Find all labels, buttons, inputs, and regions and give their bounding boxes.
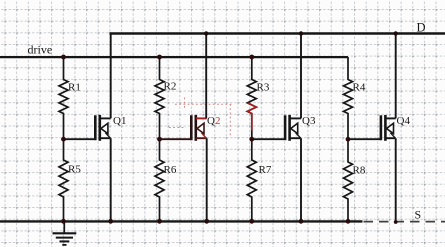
svg-text:Q1: Q1: [113, 115, 126, 127]
wire: Q2 source to rail: [206, 138, 208, 221]
svg-text:Q2: Q2: [207, 115, 220, 127]
transistor Q4: [348, 115, 396, 141]
resistor R5: [59, 139, 68, 221]
transistor Q2 (highlighted red): [160, 115, 207, 141]
wire: drive rail: [0, 56, 348, 58]
junction gate node 4: [346, 137, 351, 142]
svg-text:R8: R8: [353, 165, 366, 177]
junction S-rail/Q4 source: [394, 220, 398, 224]
svg-text:R1: R1: [68, 82, 81, 94]
wire: Q3 source to rail: [300, 138, 302, 221]
wire: Q1 drain to rail: [110, 34, 112, 119]
junction D-rail/Q3 drain: [299, 31, 303, 35]
junction S-rail/R6: [157, 219, 162, 224]
ground: [53, 221, 77, 245]
junction S-rail/R5: [61, 219, 66, 224]
svg-text:R3: R3: [257, 82, 270, 94]
junction drive/R3: [249, 55, 254, 60]
transistor Q3: [252, 115, 301, 141]
svg-text:R5: R5: [68, 164, 81, 176]
transistor Q1: [64, 115, 111, 141]
wire: R3 to gate node (highlighted red): [247, 103, 256, 131]
wire: Q4 source to rail: [395, 138, 397, 222]
junction S-rail/Q2 source: [204, 219, 209, 224]
junction gate node 3: [249, 137, 254, 142]
wire: Q3 drain to rail: [300, 34, 302, 119]
junction D-rail/Q2 drain: [204, 31, 208, 35]
svg-text:Q3: Q3: [302, 115, 316, 127]
svg-text:S: S: [415, 207, 422, 221]
junction gate node 2: [157, 137, 162, 142]
svg-text:drive: drive: [28, 43, 53, 57]
svg-text:R2: R2: [164, 81, 177, 93]
svg-text:Q4: Q4: [397, 115, 411, 127]
junction S-rail/Q3 source: [299, 219, 304, 224]
junction S-rail/R8: [346, 219, 351, 224]
wire: bottom source rail (net S): [0, 220, 363, 222]
junction D-rail/Q4 drain: [394, 31, 398, 35]
junction drive/R2: [157, 55, 162, 60]
svg-text:D: D: [417, 21, 426, 35]
junction S-rail/Q1 source: [108, 219, 113, 224]
junction drive/R1: [61, 55, 66, 60]
wire: Q2 drain to rail: [205, 34, 207, 119]
svg-text:R7: R7: [259, 164, 272, 176]
resistor R2: [155, 57, 164, 139]
resistor R1: [59, 57, 68, 139]
resistor R6: [155, 139, 164, 221]
junction S-rail/R7: [249, 219, 254, 224]
resistor R7: [247, 139, 256, 221]
svg-text:R6: R6: [164, 164, 177, 176]
selection marks around Q2: [169, 98, 233, 137]
wire: top drain rail (net D): [111, 34, 445, 35]
svg-text:R4: R4: [353, 82, 366, 94]
junction gate node 1: [61, 137, 66, 142]
resistor R4: [344, 57, 353, 139]
wire: Q1 source to rail: [110, 138, 112, 221]
resistor R3: [247, 57, 256, 139]
wire: bottom rail dashed continuation: [364, 221, 445, 223]
wire: Q4 drain to rail: [395, 34, 397, 119]
resistor R8: [344, 139, 353, 221]
